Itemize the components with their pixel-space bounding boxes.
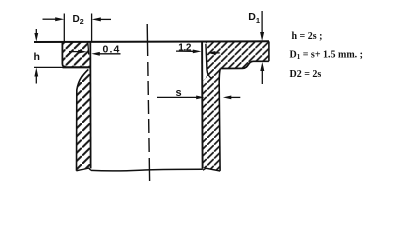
svg-text:h = 2s ;: h = 2s ; — [292, 31, 323, 42]
right flange underside with ogee — [220, 61, 269, 68]
right seam line 1.2 band — [206, 44, 212, 78]
dimension D2 arrow left — [43, 18, 57, 20]
right inner bore line — [201, 41, 204, 168]
dimension D2 extension line left — [63, 14, 65, 42]
dimension h arrow top — [35, 29, 37, 34]
dimension 1.2 leader — [176, 50, 194, 52]
left wall bottom edge — [76, 168, 91, 171]
left wall section hatch — [74, 66, 93, 173]
svg-text:s: s — [176, 87, 182, 99]
svg-text:h: h — [34, 51, 40, 63]
dimension 0.4 leader — [98, 53, 121, 55]
svg-text:D1 = s+ 1.5 mm. ;: D1 = s+ 1.5 mm. ; — [290, 50, 364, 62]
wire h extension bottom — [34, 66, 63, 68]
far bottom edge of bore — [91, 169, 203, 171]
dimension D1 arrow down — [261, 11, 263, 33]
dimension D2 arrow right — [100, 18, 111, 20]
left inner bore line — [89, 42, 91, 169]
wire top surface line — [34, 40, 269, 43]
dimension 0.4 inner arrow — [69, 51, 79, 53]
left seam line 0.4 band — [87, 42, 90, 55]
centerline — [147, 24, 149, 181]
right flange right edge — [268, 41, 270, 61]
dimension 1.2 inner arrow — [214, 52, 220, 54]
dimension h arrow bottom — [35, 76, 37, 84]
dimension s line left — [157, 96, 197, 98]
svg-text:1.2: 1.2 — [178, 43, 192, 54]
svg-text:D2 = 2s: D2 = 2s — [290, 69, 322, 80]
left flange bottom edge — [63, 66, 91, 68]
left flange left edge — [62, 42, 66, 67]
svg-text:0.4: 0.4 — [103, 43, 121, 55]
dimension D2 extension line right — [91, 14, 93, 42]
dimension D1 arrow up — [261, 71, 263, 85]
right flange and wall section hatch — [200, 39, 272, 173]
dimension s arrow right — [230, 96, 240, 98]
right wall outer edge — [219, 69, 220, 171]
left wall outer edge with fillet — [77, 69, 89, 170]
right wall bottom edge — [203, 168, 220, 171]
left flange section hatch — [60, 39, 93, 70]
